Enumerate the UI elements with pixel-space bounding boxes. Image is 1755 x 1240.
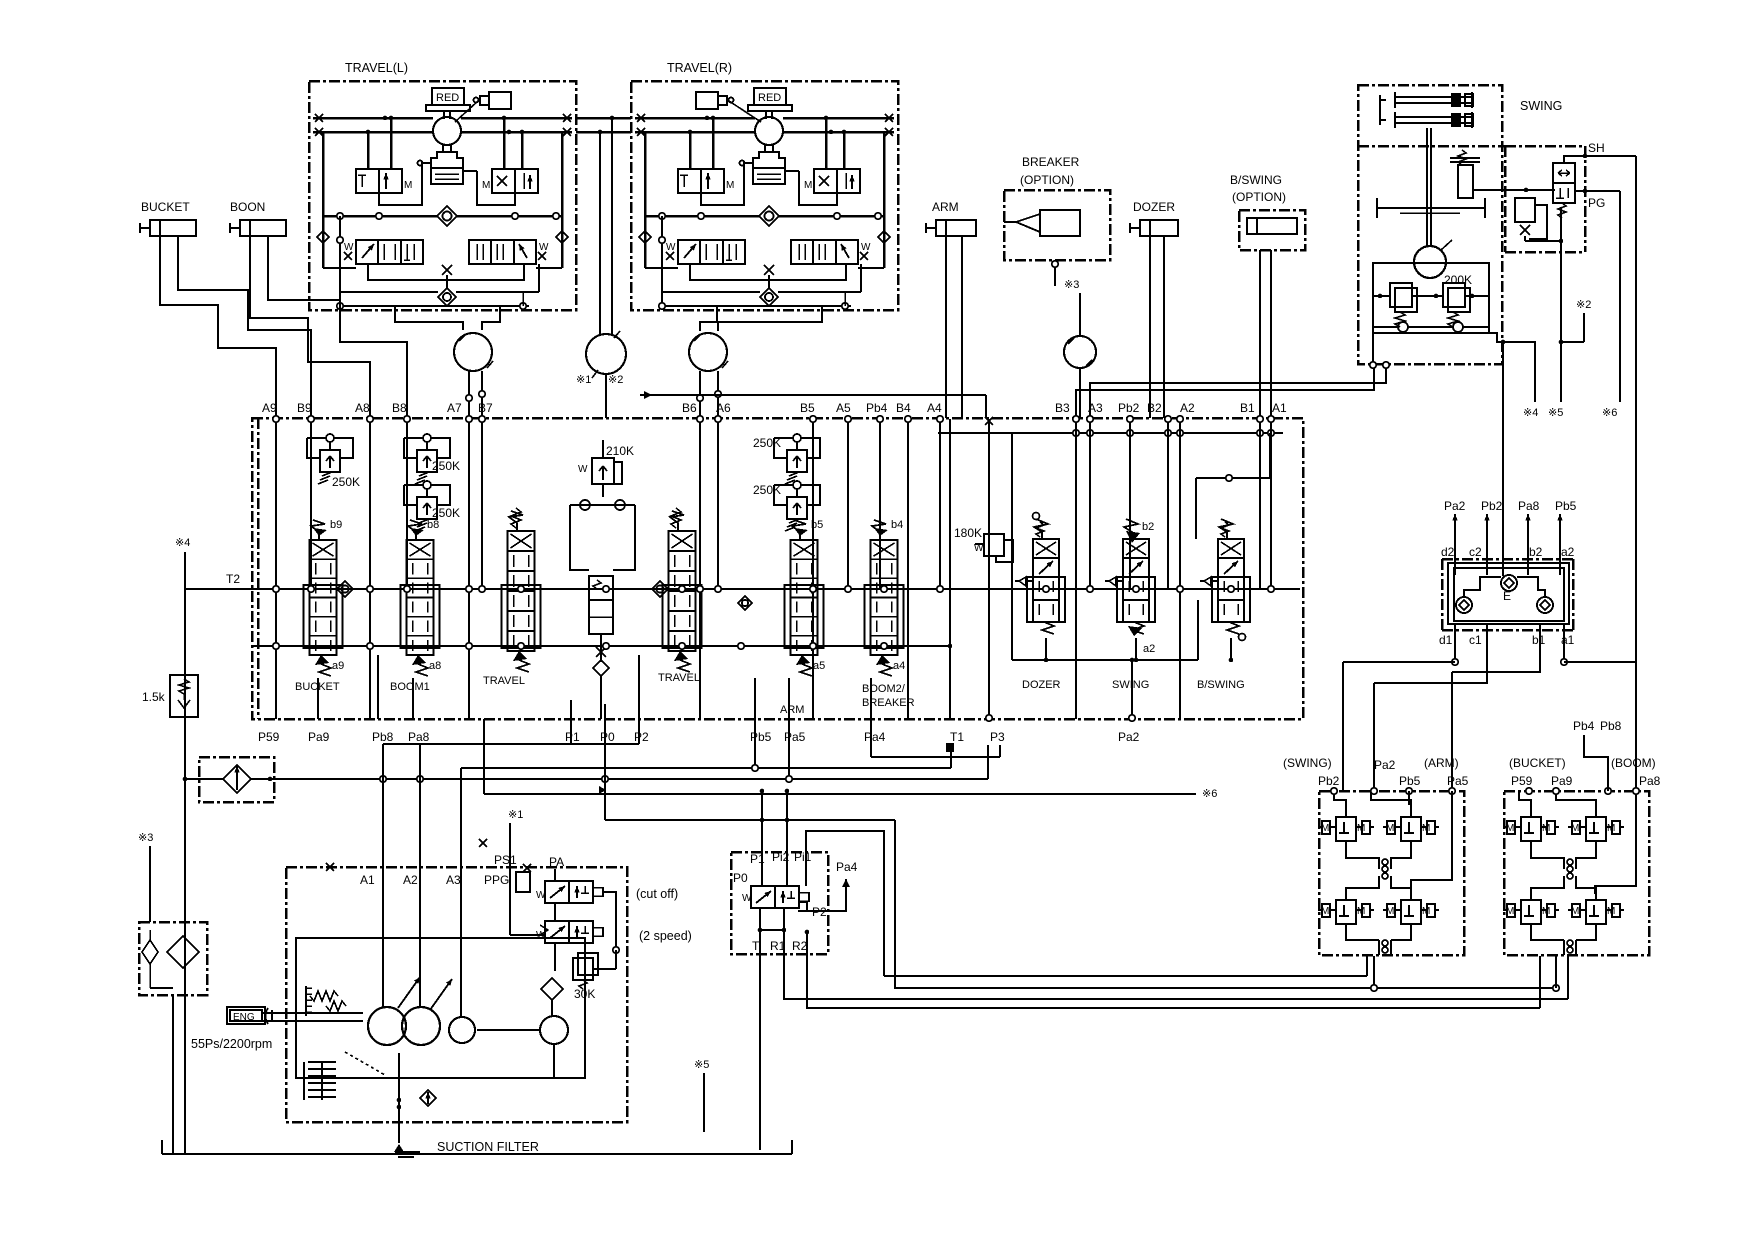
svg-text:Pb2: Pb2 — [1118, 401, 1140, 415]
svg-text:a2: a2 — [1143, 643, 1155, 655]
svg-text:A3: A3 — [1088, 401, 1103, 415]
svg-text:A7: A7 — [447, 401, 462, 415]
svg-text:55Ps/2200rpm: 55Ps/2200rpm — [191, 1037, 272, 1051]
svg-text:W: W — [861, 242, 871, 253]
svg-text:(OPTION): (OPTION) — [1232, 190, 1286, 204]
svg-text:W: W — [578, 464, 588, 475]
svg-text:W: W — [536, 930, 546, 941]
svg-text:BOOM2/: BOOM2/ — [862, 683, 906, 695]
svg-text:BREAKER: BREAKER — [862, 697, 915, 709]
svg-text:W: W — [666, 242, 676, 253]
svg-text:b1: b1 — [1532, 633, 1546, 647]
svg-text:ARM: ARM — [932, 200, 959, 214]
svg-text:DOZER: DOZER — [1022, 679, 1061, 691]
svg-text:ENG: ENG — [233, 1012, 255, 1023]
svg-text:a2: a2 — [1561, 545, 1575, 559]
svg-text:T: T — [752, 939, 760, 953]
svg-text:※4: ※4 — [1523, 407, 1538, 419]
svg-text:250K: 250K — [332, 475, 360, 489]
svg-text:A9: A9 — [262, 401, 277, 415]
svg-text:Pb8: Pb8 — [1600, 719, 1622, 733]
svg-text:200K: 200K — [1444, 273, 1472, 287]
svg-text:Pb4: Pb4 — [1573, 719, 1595, 733]
svg-text:Pa2: Pa2 — [1118, 730, 1140, 744]
svg-text:SWING: SWING — [1112, 679, 1149, 691]
svg-text:a9: a9 — [332, 660, 344, 672]
svg-text:c1: c1 — [1469, 633, 1482, 647]
svg-text:B9: B9 — [297, 401, 312, 415]
svg-text:Pb5: Pb5 — [750, 730, 772, 744]
svg-text:ARM: ARM — [780, 704, 804, 716]
svg-text:Pa9: Pa9 — [1551, 774, 1573, 788]
svg-text:a8: a8 — [429, 660, 441, 672]
svg-text:Pb4: Pb4 — [866, 401, 888, 415]
svg-text:A1: A1 — [360, 873, 375, 887]
svg-text:W: W — [539, 242, 549, 253]
svg-text:b2: b2 — [1142, 521, 1154, 533]
svg-text:P59: P59 — [258, 730, 280, 744]
svg-text:A2: A2 — [1180, 401, 1195, 415]
svg-text:Pa5: Pa5 — [1447, 774, 1469, 788]
svg-text:Pa8: Pa8 — [408, 730, 430, 744]
svg-text:b9: b9 — [330, 519, 342, 531]
svg-text:P3: P3 — [990, 730, 1005, 744]
svg-text:180K: 180K — [954, 526, 982, 540]
svg-text:c2: c2 — [1469, 545, 1482, 559]
svg-text:B1: B1 — [1240, 401, 1255, 415]
svg-text:A2: A2 — [403, 873, 418, 887]
svg-text:250K: 250K — [432, 459, 460, 473]
svg-text:M: M — [804, 180, 812, 191]
svg-text:(BUCKET): (BUCKET) — [1509, 756, 1566, 770]
svg-text:P59: P59 — [1511, 774, 1533, 788]
svg-text:※5: ※5 — [1548, 407, 1563, 419]
svg-text:W: W — [536, 890, 546, 901]
svg-text:A3: A3 — [446, 873, 461, 887]
svg-text:d2: d2 — [1441, 545, 1455, 559]
svg-text:BOOM1: BOOM1 — [390, 681, 430, 693]
svg-text:BOON: BOON — [230, 200, 265, 214]
svg-text:Pi2: Pi2 — [772, 850, 790, 864]
svg-text:Pa4: Pa4 — [836, 860, 858, 874]
svg-text:Pa9: Pa9 — [308, 730, 330, 744]
svg-text:A6: A6 — [716, 401, 731, 415]
svg-text:PS1: PS1 — [494, 853, 517, 867]
svg-text:M: M — [726, 180, 734, 191]
svg-text:BREAKER: BREAKER — [1022, 155, 1080, 169]
svg-text:W: W — [344, 242, 354, 253]
svg-text:a4: a4 — [893, 660, 905, 672]
svg-text:※6: ※6 — [1602, 407, 1617, 419]
svg-text:A8: A8 — [355, 401, 370, 415]
svg-text:B/SWING: B/SWING — [1230, 173, 1282, 187]
svg-text:B/SWING: B/SWING — [1197, 679, 1245, 691]
svg-text:210K: 210K — [606, 444, 634, 458]
svg-text:P1: P1 — [750, 852, 765, 866]
svg-text:PG: PG — [1588, 196, 1605, 210]
svg-text:Pa8: Pa8 — [1518, 499, 1540, 513]
svg-text:Pa4: Pa4 — [864, 730, 886, 744]
svg-text:(cut off): (cut off) — [636, 887, 678, 901]
svg-text:PPG: PPG — [484, 873, 509, 887]
svg-text:(OPTION): (OPTION) — [1020, 173, 1074, 187]
svg-text:※6: ※6 — [1202, 788, 1217, 800]
svg-text:d1: d1 — [1439, 633, 1453, 647]
svg-text:B8: B8 — [392, 401, 407, 415]
svg-text:b8: b8 — [427, 519, 439, 531]
svg-text:Pa8: Pa8 — [1639, 774, 1661, 788]
svg-text:※1: ※1 — [576, 374, 591, 386]
svg-text:TRAVEL: TRAVEL — [483, 675, 525, 687]
svg-text:T1: T1 — [950, 730, 964, 744]
svg-text:R2: R2 — [792, 939, 808, 953]
svg-text:(SWING): (SWING) — [1283, 756, 1332, 770]
svg-text:P0: P0 — [733, 871, 748, 885]
svg-text:B4: B4 — [896, 401, 911, 415]
svg-text:TRAVEL(R): TRAVEL(R) — [667, 61, 732, 75]
svg-text:Pb2: Pb2 — [1481, 499, 1503, 513]
svg-text:P2: P2 — [812, 905, 827, 919]
svg-text:RED: RED — [436, 92, 459, 104]
svg-text:DOZER: DOZER — [1133, 200, 1175, 214]
svg-text:b2: b2 — [1529, 545, 1543, 559]
svg-text:Pi1: Pi1 — [794, 850, 812, 864]
svg-text:Pa2: Pa2 — [1444, 499, 1466, 513]
svg-text:A4: A4 — [927, 401, 942, 415]
svg-text:A5: A5 — [836, 401, 851, 415]
svg-text:RED: RED — [758, 92, 781, 104]
svg-text:P2: P2 — [634, 730, 649, 744]
svg-text:※3: ※3 — [138, 832, 153, 844]
svg-text:BUCKET: BUCKET — [141, 200, 190, 214]
svg-text:b4: b4 — [891, 519, 903, 531]
svg-text:B3: B3 — [1055, 401, 1070, 415]
svg-text:Pb5: Pb5 — [1555, 499, 1577, 513]
svg-text:SWING: SWING — [1520, 99, 1562, 113]
svg-text:250K: 250K — [432, 506, 460, 520]
svg-text:B7: B7 — [478, 401, 493, 415]
svg-text:TRAVEL: TRAVEL — [658, 672, 700, 684]
svg-text:P1: P1 — [565, 730, 580, 744]
svg-text:T2: T2 — [226, 572, 240, 586]
svg-text:a1: a1 — [1561, 633, 1575, 647]
svg-text:1.5k: 1.5k — [142, 690, 166, 704]
svg-text:SH: SH — [1588, 141, 1605, 155]
svg-text:Pb2: Pb2 — [1318, 774, 1340, 788]
svg-text:※3: ※3 — [1064, 279, 1079, 291]
svg-text:(2 speed): (2 speed) — [639, 929, 692, 943]
svg-text:※5: ※5 — [694, 1059, 709, 1071]
svg-text:a5: a5 — [813, 660, 825, 672]
svg-text:TRAVEL(L): TRAVEL(L) — [345, 61, 408, 75]
svg-text:※2: ※2 — [608, 374, 623, 386]
svg-text:P0: P0 — [600, 730, 615, 744]
svg-text:B6: B6 — [682, 401, 697, 415]
svg-text:※2: ※2 — [1576, 299, 1591, 311]
svg-text:SUCTION FILTER: SUCTION FILTER — [437, 1140, 539, 1154]
svg-text:※4: ※4 — [175, 537, 190, 549]
svg-text:M: M — [404, 180, 412, 191]
svg-text:(ARM): (ARM) — [1424, 756, 1459, 770]
svg-text:Pa2: Pa2 — [1374, 758, 1396, 772]
svg-text:250K: 250K — [753, 483, 781, 497]
svg-text:B5: B5 — [800, 401, 815, 415]
svg-text:250K: 250K — [753, 436, 781, 450]
svg-text:PA: PA — [549, 855, 564, 869]
svg-text:A1: A1 — [1272, 401, 1287, 415]
svg-text:※1: ※1 — [508, 809, 523, 821]
svg-text:Pb5: Pb5 — [1399, 774, 1421, 788]
svg-text:E: E — [1503, 589, 1511, 603]
svg-text:Pa5: Pa5 — [784, 730, 806, 744]
svg-text:M: M — [482, 180, 490, 191]
svg-text:(BOOM): (BOOM) — [1611, 756, 1656, 770]
svg-text:Pb8: Pb8 — [372, 730, 394, 744]
svg-text:B2: B2 — [1147, 401, 1162, 415]
